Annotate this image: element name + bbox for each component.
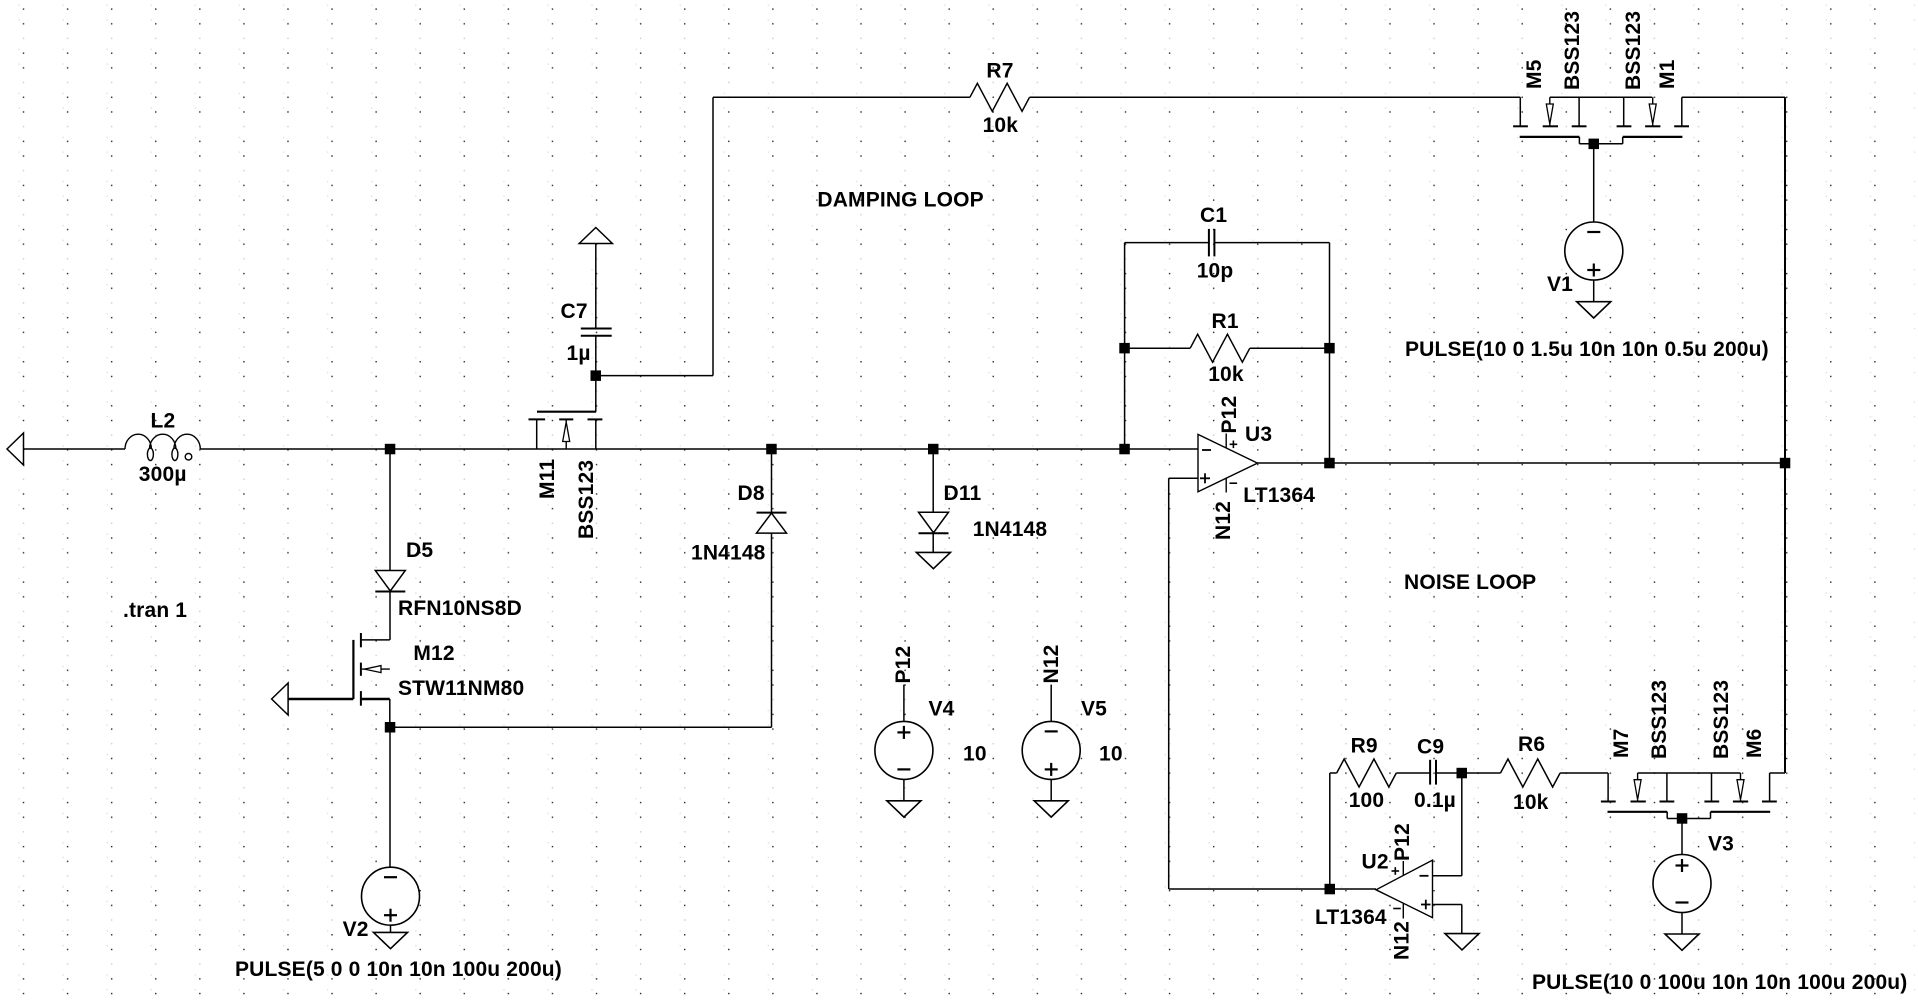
- svg-text:10k: 10k: [983, 114, 1019, 137]
- junction: [1325, 884, 1336, 895]
- transistor M6 BSS123: [1769, 773, 1771, 802]
- capacitor C1: [1208, 229, 1210, 257]
- svg-text:BSS123: BSS123: [1710, 680, 1733, 759]
- voltage source V5 (N12): [1022, 721, 1080, 779]
- wire: [1124, 243, 1126, 449]
- op-amp U2 LT1364 (mirrored): [1376, 860, 1433, 918]
- wire: [1169, 888, 1376, 890]
- ground (D11): [916, 552, 950, 568]
- wire: [1433, 904, 1462, 906]
- wire: [1550, 96, 1652, 98]
- wire: [1329, 773, 1331, 889]
- svg-text:M12: M12: [413, 642, 454, 665]
- wire: [1396, 772, 1430, 774]
- svg-text:1µ: 1µ: [567, 342, 591, 365]
- svg-text:NOISE LOOP: NOISE LOOP: [1404, 571, 1536, 594]
- wire: [1214, 242, 1329, 244]
- junction: [1324, 343, 1335, 354]
- transistor M5 BSS123: [1519, 97, 1521, 126]
- junction: [385, 722, 396, 733]
- svg-text:N12: N12: [1212, 501, 1235, 540]
- svg-text:10k: 10k: [1513, 791, 1549, 814]
- diode D8 1N4148: [757, 512, 787, 514]
- svg-text:0.1µ: 0.1µ: [1414, 789, 1456, 812]
- wire: [389, 699, 391, 727]
- wire: [713, 96, 970, 98]
- svg-text:D8: D8: [738, 482, 765, 505]
- svg-text:M6: M6: [1743, 729, 1766, 759]
- resistor R7 10k: [970, 83, 1030, 111]
- wire: [390, 925, 392, 932]
- wire: [595, 244, 597, 329]
- svg-text:10: 10: [963, 743, 987, 766]
- svg-text:P12: P12: [1391, 823, 1414, 861]
- capacitor C7: [581, 328, 612, 330]
- svg-text:LT1364: LT1364: [1243, 484, 1315, 507]
- resistor R1 10k: [1190, 334, 1250, 362]
- svg-text:BSS123: BSS123: [1561, 11, 1584, 90]
- wire: [1330, 772, 1337, 774]
- wire: [24, 448, 126, 450]
- wire: [1169, 477, 1198, 479]
- wire: [712, 97, 714, 375]
- wire: [771, 449, 773, 512]
- svg-text:LT1364: LT1364: [1315, 906, 1387, 929]
- svg-text:V1: V1: [1547, 273, 1573, 296]
- ground (V1): [1577, 302, 1611, 318]
- diode D11 1N4148: [919, 512, 949, 533]
- inductor L2: [125, 434, 200, 460]
- voltage source V4 (P12): [875, 721, 933, 779]
- wire: [1433, 875, 1462, 877]
- junction: [1324, 458, 1335, 469]
- wire: [1579, 143, 1622, 145]
- voltage source V2: [362, 867, 420, 925]
- junction: [1119, 343, 1130, 354]
- op-amp U3 LT1364: [1198, 434, 1258, 491]
- svg-text:R1: R1: [1212, 310, 1239, 333]
- capacitor C9 0.1µ: [1429, 760, 1431, 785]
- ground (V3): [1665, 934, 1699, 950]
- ground (V2): [374, 932, 408, 948]
- svg-text:.tran 1: .tran 1: [123, 599, 187, 622]
- junction: [928, 444, 939, 455]
- wire: [1050, 779, 1052, 800]
- wire: [903, 779, 905, 800]
- svg-text:V5: V5: [1081, 698, 1107, 721]
- svg-text:100: 100: [1349, 789, 1385, 812]
- wire: [389, 592, 391, 640]
- wire: [1638, 772, 1741, 774]
- svg-text:P12: P12: [892, 646, 915, 684]
- svg-text:C9: C9: [1417, 736, 1444, 759]
- wire: [1667, 818, 1710, 820]
- svg-text:BSS123: BSS123: [1622, 11, 1645, 90]
- wire: [596, 375, 713, 377]
- junction: [1780, 458, 1791, 469]
- wire: [389, 727, 391, 867]
- wire: [1593, 144, 1595, 222]
- junction: [1677, 813, 1688, 824]
- svg-text:N12: N12: [1040, 644, 1063, 683]
- svg-text:D11: D11: [944, 482, 982, 505]
- svg-text:V3: V3: [1708, 833, 1734, 856]
- transistor M7 BSS123: [1607, 773, 1609, 802]
- svg-text:L2: L2: [151, 410, 176, 433]
- wire: [1461, 905, 1463, 934]
- svg-text:300µ: 300µ: [139, 463, 187, 486]
- junction: [1457, 768, 1468, 779]
- wire: [1560, 772, 1608, 774]
- wire: [1461, 773, 1463, 876]
- wire: [1258, 462, 1786, 464]
- svg-text:M7: M7: [1610, 729, 1633, 759]
- resistor R9 100: [1337, 759, 1397, 787]
- svg-text:R7: R7: [986, 59, 1013, 82]
- svg-text:BSS123: BSS123: [575, 460, 598, 539]
- voltage source V3: [1653, 855, 1711, 913]
- wire: [1681, 819, 1683, 855]
- svg-text:BSS123: BSS123: [1648, 680, 1671, 759]
- svg-text:1N4148: 1N4148: [973, 518, 1048, 541]
- wire: [1250, 347, 1330, 349]
- wire: [932, 449, 934, 512]
- wire (M11 gate): [595, 376, 597, 412]
- transistor M1 BSS123: [1681, 97, 1683, 126]
- wire: [932, 533, 934, 552]
- svg-text:PULSE(10 0 1.5u 10n 10n 0.5u 2: PULSE(10 0 1.5u 10n 10n 0.5u 200u): [1405, 338, 1769, 361]
- svg-text:P12: P12: [1218, 396, 1241, 434]
- svg-text:1N4148: 1N4148: [691, 542, 766, 565]
- junction: [591, 370, 602, 381]
- ground (V5): [1034, 801, 1068, 817]
- wire: [200, 448, 1198, 450]
- wire: [390, 726, 772, 728]
- svg-text:STW11NM80: STW11NM80: [398, 677, 524, 700]
- wire: [903, 685, 905, 722]
- port (M12 gate arrow): [272, 683, 289, 715]
- ground (U2 +input): [1445, 934, 1479, 950]
- svg-text:C1: C1: [1200, 204, 1227, 227]
- svg-text:10: 10: [1099, 743, 1123, 766]
- svg-text:DAMPING LOOP: DAMPING LOOP: [817, 188, 983, 211]
- wire: [771, 534, 773, 728]
- ground (V4): [887, 801, 921, 817]
- wire: [389, 449, 391, 571]
- wire: [1682, 96, 1785, 98]
- svg-text:M11: M11: [536, 459, 559, 499]
- svg-text:V4: V4: [929, 698, 955, 721]
- svg-text:U2: U2: [1362, 851, 1389, 874]
- port (antenna above C7): [579, 228, 612, 244]
- resistor R6 10k: [1501, 759, 1561, 787]
- wire: [1770, 772, 1785, 774]
- junction: [1589, 139, 1600, 150]
- svg-text:10p: 10p: [1197, 260, 1234, 283]
- svg-text:PULSE(5 0 0 10n 10n 100u 200u): PULSE(5 0 0 10n 10n 100u 200u): [235, 958, 562, 981]
- svg-text:10k: 10k: [1208, 363, 1244, 386]
- svg-text:D5: D5: [406, 539, 433, 562]
- voltage source V1: [1565, 222, 1623, 280]
- svg-text:PULSE(10 0 100u 10n 10n 100u 2: PULSE(10 0 100u 10n 10n 100u 200u): [1532, 971, 1907, 994]
- wire: [1125, 242, 1209, 244]
- wire: [1050, 685, 1052, 722]
- wire: [1168, 478, 1170, 889]
- wire: [1030, 96, 1521, 98]
- wire: [1436, 772, 1501, 774]
- junction: [766, 444, 777, 455]
- wire: [1784, 97, 1786, 773]
- wire: [1681, 913, 1683, 935]
- svg-text:V2: V2: [343, 918, 369, 941]
- junction: [385, 444, 396, 455]
- svg-text:RFN10NS8D: RFN10NS8D: [398, 597, 522, 620]
- wire: [1593, 280, 1595, 302]
- port In (left input arrow): [7, 433, 24, 465]
- wire: [1329, 243, 1331, 463]
- svg-text:N12: N12: [1391, 921, 1414, 960]
- svg-text:R9: R9: [1351, 735, 1378, 758]
- svg-text:M5: M5: [1523, 59, 1546, 89]
- diode D5: [375, 571, 405, 592]
- wire: [595, 336, 597, 376]
- wire: [1125, 347, 1191, 349]
- svg-text:M1: M1: [1656, 59, 1679, 89]
- svg-text:C7: C7: [561, 300, 588, 323]
- svg-text:U3: U3: [1245, 423, 1272, 446]
- junction: [1119, 444, 1130, 455]
- transistor M12 STW11NM80: [362, 639, 390, 641]
- svg-text:R6: R6: [1518, 733, 1545, 756]
